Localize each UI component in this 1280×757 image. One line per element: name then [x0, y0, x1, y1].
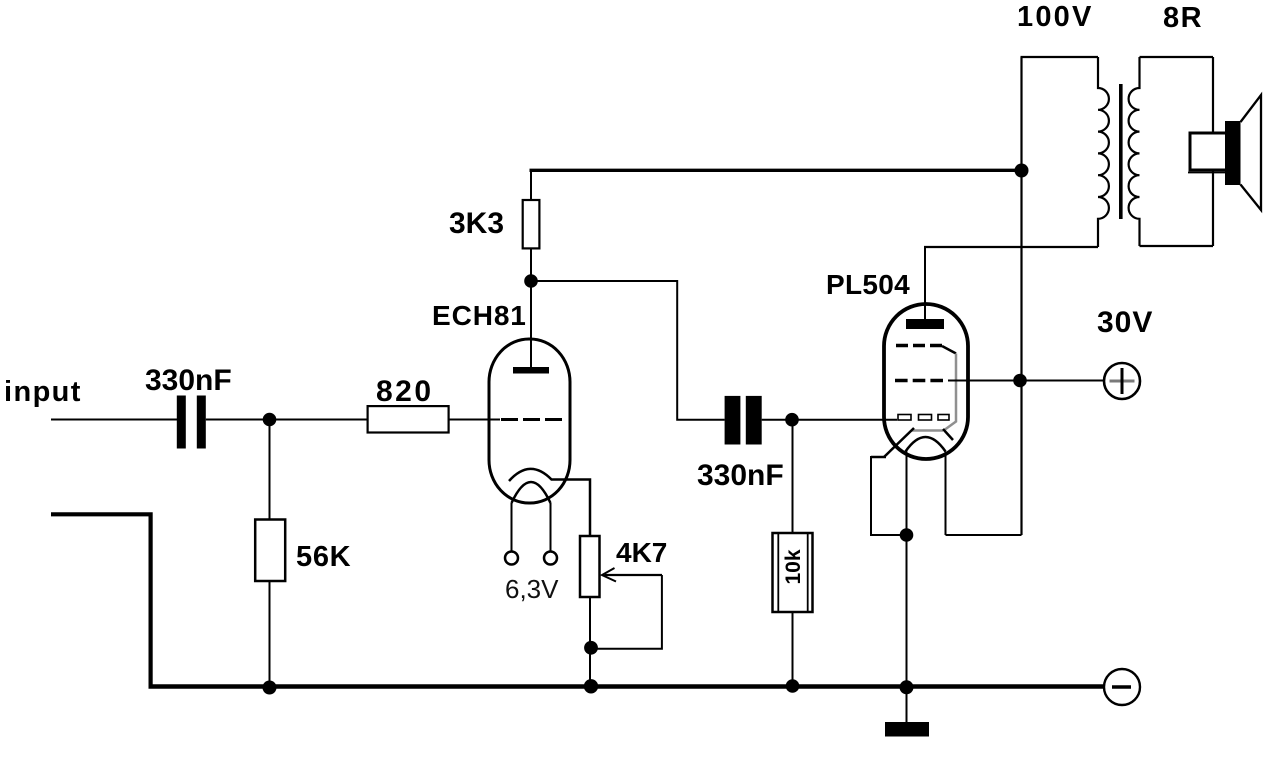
- resistor 10k: [773, 533, 813, 612]
- transformer primary winding: [1098, 57, 1109, 247]
- ground: [885, 722, 929, 737]
- svg-text:330nF: 330nF: [145, 364, 232, 397]
- pot wiper arrow: [605, 574, 663, 576]
- transformer secondary winding: [1129, 57, 1140, 246]
- svg-text:input: input: [4, 376, 82, 408]
- svg-text:ECH81: ECH81: [432, 300, 527, 331]
- wire node down to 10k: [792, 420, 794, 533]
- transformer secondary top edge: [1140, 56, 1214, 58]
- wire C1 to R 820: [206, 419, 368, 421]
- svg-text:PL504: PL504: [826, 269, 910, 300]
- wire 3K3 bottom to node: [530, 248, 532, 281]
- heater terminal circles: [505, 552, 518, 565]
- node 10k-bus junction: [786, 679, 800, 693]
- capacitor C1 330nF: [177, 396, 186, 449]
- svg-text:3K3: 3K3: [449, 207, 504, 240]
- wire pot bottom: [589, 597, 591, 687]
- wire anode node to C2: [531, 281, 725, 420]
- wire node A down to 56K: [269, 420, 271, 521]
- speaker magnet bar: [1225, 121, 1241, 185]
- minus terminal: [1104, 669, 1140, 705]
- PL504 grid3 hollow dashes: [898, 415, 911, 421]
- ECH81 cathode: [509, 469, 590, 536]
- tube PL504 envelope: [884, 304, 968, 459]
- wire C2 to PL504 grid: [762, 419, 897, 421]
- wire 56K to ground bus: [269, 581, 271, 688]
- node B+ junction: [1013, 374, 1027, 388]
- svg-text:30V: 30V: [1097, 306, 1153, 339]
- node anode junction: [524, 274, 538, 288]
- svg-text:820: 820: [376, 375, 434, 408]
- node pot-bus junction: [584, 679, 598, 693]
- wire grid2 to plus terminal: [948, 380, 1104, 382]
- wire 3K3 top: [530, 170, 532, 200]
- PL504 screen dashes: [896, 344, 942, 348]
- svg-text:330nF: 330nF: [697, 459, 784, 492]
- ECH81 grid dashes: [501, 418, 562, 421]
- wire input to C1: [51, 419, 177, 421]
- node C2 junction: [785, 413, 799, 427]
- wire PL504 anode up: [924, 247, 926, 319]
- node wiper junction: [584, 641, 598, 655]
- PL504 heater legs: [906, 452, 908, 536]
- wire lower-left step: [51, 514, 151, 686]
- PL504 anode bar: [906, 319, 944, 329]
- transformer secondary bottom edge: [1140, 245, 1214, 247]
- svg-text:4K7: 4K7: [616, 537, 667, 568]
- wire heater right to B+ vertical: [946, 534, 1022, 536]
- node 56K-bus junction: [263, 681, 277, 695]
- node cathode-heater junction: [900, 528, 914, 542]
- node cathode-bus junction: [900, 680, 914, 694]
- PL504 heater arch: [906, 437, 946, 452]
- plus terminal: [1104, 363, 1140, 399]
- wiper wire: [596, 575, 662, 649]
- PL504 control grid dashes: [895, 379, 943, 383]
- wire primary bottom edge: [924, 246, 1098, 248]
- ECH81 heater arch: [512, 482, 551, 503]
- wire top rail to transformer: [530, 169, 1023, 172]
- wire 820 to ECH81 grid: [449, 419, 500, 421]
- speaker driver box: [1190, 133, 1227, 170]
- tube ECH81 envelope: [489, 339, 570, 503]
- wire ECH81 anode up: [530, 281, 532, 367]
- wire cathode node to bus and ground: [906, 535, 908, 722]
- node top rail at transformer: [1015, 164, 1029, 178]
- capacitor C2 330nF: [725, 396, 741, 445]
- potentiometer 4K7: [580, 536, 600, 597]
- svg-text:8R: 8R: [1163, 2, 1203, 34]
- ECH81 anode bar: [513, 367, 549, 374]
- transformer core: [1119, 84, 1123, 219]
- resistor 56K: [255, 520, 285, 582]
- wire cathode left: [871, 456, 907, 535]
- svg-text:10k: 10k: [782, 549, 805, 584]
- node A (input junction): [263, 413, 277, 427]
- wire secondary right vertical: [1212, 57, 1214, 246]
- speaker cone: [1241, 95, 1262, 210]
- svg-text:100V: 100V: [1017, 1, 1094, 33]
- svg-text:6,3V: 6,3V: [505, 574, 559, 604]
- PL504 cathode: [911, 429, 943, 432]
- resistor 3K3: [523, 200, 540, 248]
- ECH81 heater legs: [511, 503, 513, 552]
- svg-text:56K: 56K: [296, 541, 351, 573]
- wire ground bus: [149, 684, 1105, 689]
- wire 10k to bus: [792, 612, 794, 687]
- transformer primary top edge: [1021, 56, 1099, 58]
- resistor 820: [368, 406, 449, 432]
- wire B+ vertical: [1020, 57, 1022, 535]
